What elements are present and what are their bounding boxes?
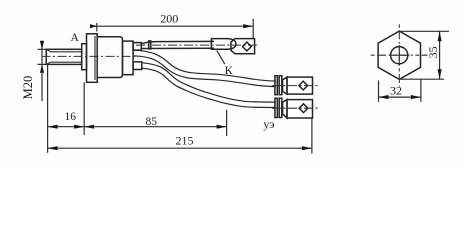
lower terminal diamond hole xyxy=(299,104,308,113)
lower terminal body xyxy=(287,100,313,118)
dimension 215 xyxy=(48,118,312,153)
svg-text:215: 215 xyxy=(176,134,194,148)
svg-text:32: 32 xyxy=(390,83,402,97)
hex flange body xyxy=(87,34,98,83)
washer/collar xyxy=(82,44,87,70)
dimension 200 xyxy=(90,19,253,39)
K leader line xyxy=(217,51,225,65)
dimension 32 xyxy=(379,80,421,102)
lower terminal funnel xyxy=(283,100,287,118)
dimension M20 xyxy=(38,41,47,102)
cathode lug plate K xyxy=(231,39,255,54)
svg-text:М20: М20 xyxy=(21,76,35,100)
lower terminal centerline xyxy=(272,107,318,109)
upper terminal body xyxy=(287,77,313,94)
horizontal centerline xyxy=(371,54,428,56)
svg-text:К: К xyxy=(225,63,234,77)
cathode lead stub xyxy=(133,43,141,51)
vertical centerline xyxy=(398,24,400,86)
svg-text:200: 200 xyxy=(160,12,178,26)
svg-text:85: 85 xyxy=(146,116,158,128)
main cylinder body xyxy=(97,37,122,78)
svg-text:А: А xyxy=(70,32,79,44)
cathode wire centerline xyxy=(136,44,260,46)
dimension 85 xyxy=(84,110,226,136)
gate lead stub xyxy=(133,62,142,70)
stud hole circle xyxy=(391,47,408,64)
cathode braid wire xyxy=(141,41,214,49)
gate wire B to lower terminal xyxy=(142,65,276,104)
lower terminal ferrule xyxy=(275,98,282,117)
svg-text:уэ: уэ xyxy=(263,117,274,131)
dimension 16 xyxy=(48,65,85,153)
upper terminal funnel xyxy=(283,77,287,94)
main centerline xyxy=(42,55,139,57)
gate wire A to upper terminal xyxy=(134,53,276,84)
hex nut end view xyxy=(371,24,428,86)
lug diamond hole xyxy=(243,42,252,51)
upper terminal ferrule xyxy=(275,76,282,95)
svg-text:35: 35 xyxy=(426,46,440,58)
cathode crimp sleeve xyxy=(211,39,236,50)
upper terminal centerline xyxy=(272,85,318,87)
insulator cap xyxy=(123,41,134,75)
upper terminal diamond hole xyxy=(299,81,308,90)
dimension 35 xyxy=(399,31,449,79)
stud M20 (anode stud) xyxy=(46,49,81,64)
svg-text:16: 16 xyxy=(65,111,77,123)
